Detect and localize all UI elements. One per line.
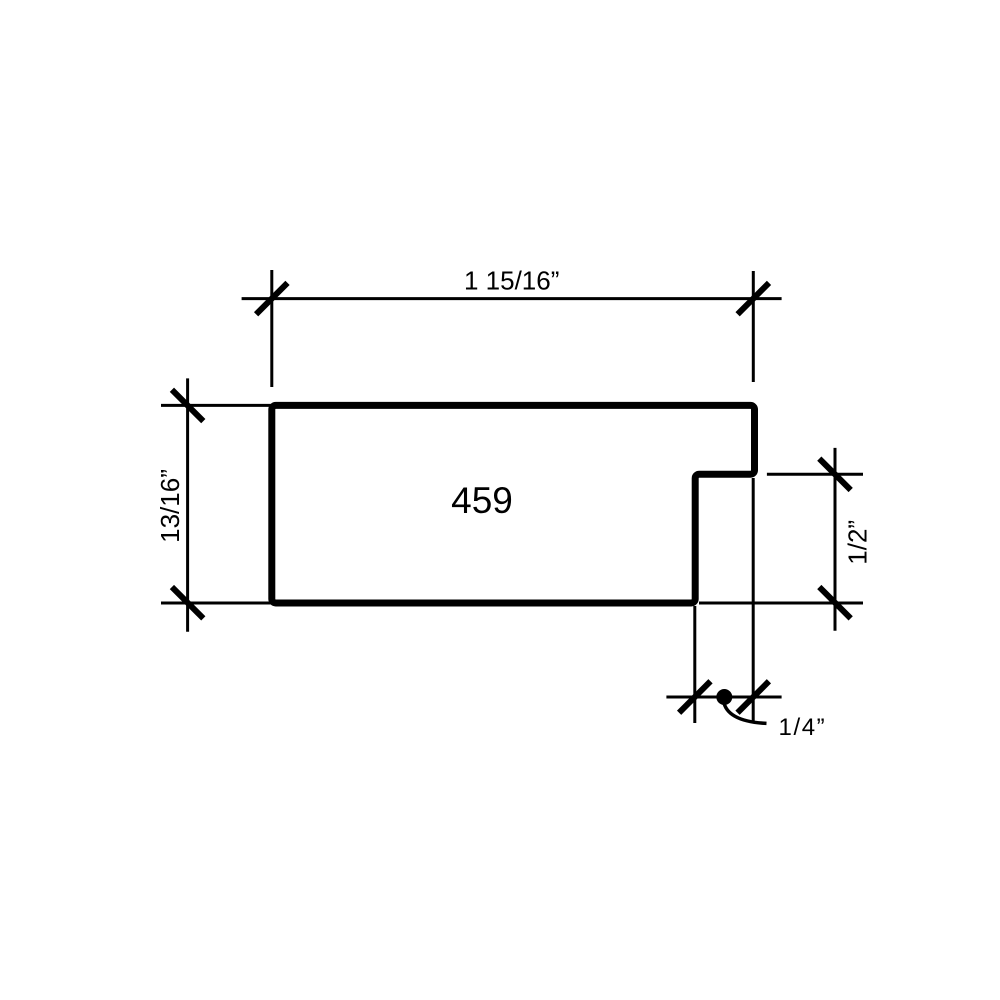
svg-text:459: 459 [451, 480, 513, 521]
svg-text:1/2”: 1/2” [842, 520, 872, 565]
svg-text:1/4”: 1/4” [779, 714, 827, 741]
svg-text:13/16”: 13/16” [155, 469, 185, 543]
svg-text:1 15/16”: 1 15/16” [464, 265, 559, 295]
